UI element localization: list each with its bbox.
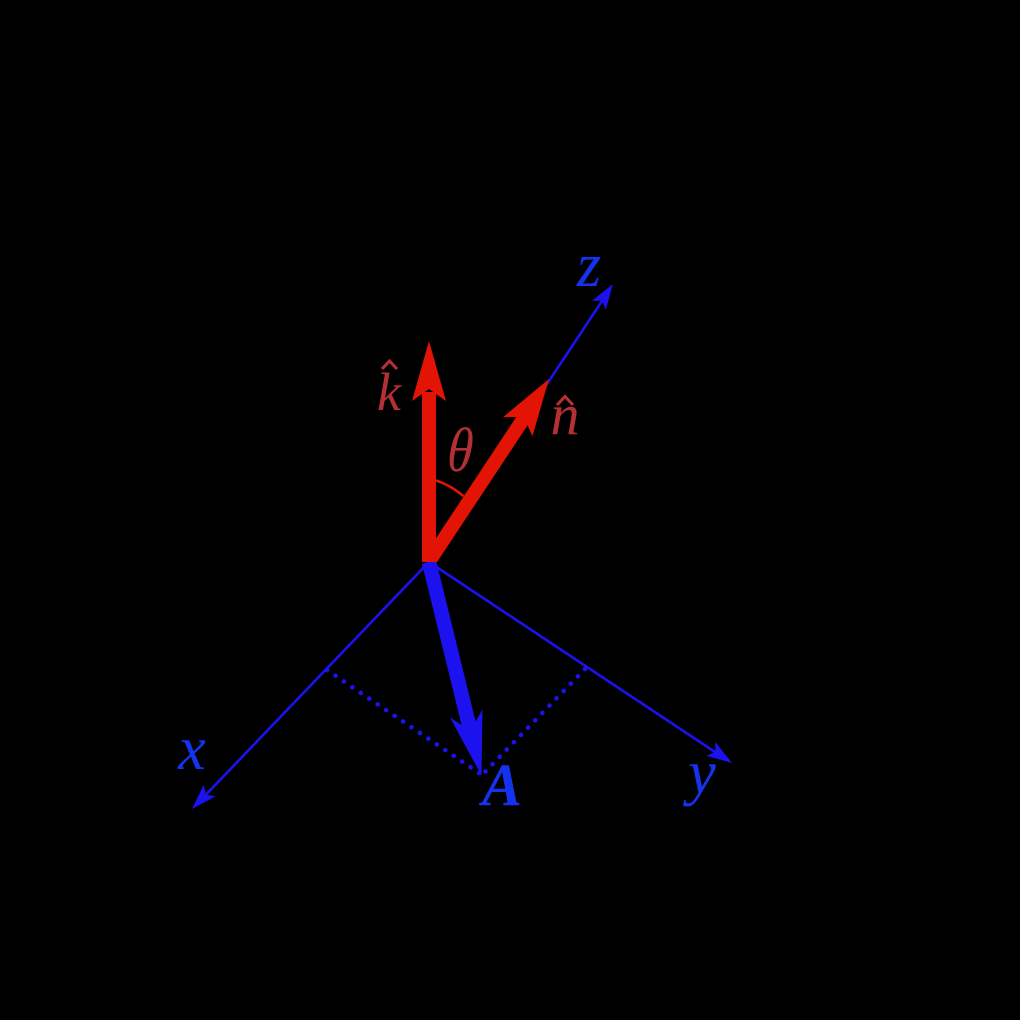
- vector n-hat shaft: [431, 415, 526, 559]
- z-axis line: [429, 289, 610, 562]
- z-axis arrowhead: [592, 284, 613, 310]
- y-axis line: [429, 562, 727, 760]
- vector k-hat arrowhead: [412, 341, 446, 401]
- vector A shaft: [429, 562, 471, 731]
- x-axis line: [196, 562, 429, 805]
- vector n-hat arrowhead: [503, 379, 549, 436]
- svg-text:x: x: [177, 715, 206, 783]
- angle arc between k-hat and n-hat: [429, 479, 464, 497]
- vector A arrowhead: [450, 709, 483, 775]
- svg-text:z: z: [576, 232, 601, 300]
- svg-text:θ: θ: [445, 416, 475, 485]
- svg-text:n: n: [551, 382, 580, 447]
- hat accent of k: [382, 361, 397, 369]
- hat accent of n: [557, 397, 573, 406]
- vector k-hat shaft: [422, 392, 436, 562]
- svg-text:y: y: [682, 739, 716, 807]
- y-axis arrowhead: [706, 742, 732, 763]
- dotted component line from y-axis to tip of A: [482, 669, 585, 775]
- svg-text:k: k: [377, 362, 402, 422]
- svg-text:A: A: [478, 752, 522, 818]
- dotted component line from x-axis to tip of A: [327, 670, 482, 775]
- x-axis arrowhead: [192, 785, 216, 809]
